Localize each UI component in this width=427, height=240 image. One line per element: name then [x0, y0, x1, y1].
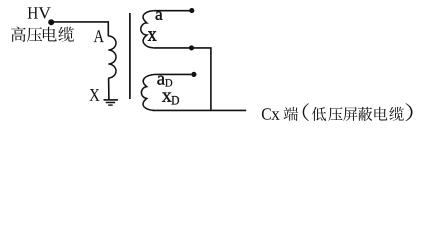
wire: HV dot to primary winding top (corner at A) — [51, 22, 108, 36]
ground symbol at X — [104, 99, 119, 101]
label HV — [28, 7, 38, 18]
wire: terminal x to right corner, down to Cx rail — [154, 48, 211, 111]
wire: terminal a to dot — [153, 10, 189, 12]
node: HV junction dot — [48, 19, 54, 25]
label X (primary bottom terminal) — [89, 89, 99, 101]
label A (primary top terminal) — [94, 30, 104, 42]
circuit schematic: HV test transformer with Cx measurement — [0, 0, 427, 130]
node: terminal x dot — [189, 45, 194, 50]
node: terminal a dot — [189, 8, 194, 13]
inductor: secondary winding a-x (left-bulging) — [141, 11, 154, 48]
wire: terminal aD to dot — [156, 73, 192, 75]
label xD (secondary 2 bottom) — [162, 93, 172, 102]
wire: Cx rail (xD to Cx terminal) — [153, 109, 247, 111]
label aD (secondary 2 top) — [157, 76, 164, 85]
label a (secondary 1 top) — [156, 12, 163, 20]
transformer core line — [129, 13, 131, 99]
label x (secondary 1 bottom) — [148, 31, 157, 40]
inductor: primary winding A-X (3 right-bulging arcs) — [108, 36, 116, 78]
inductor: secondary winding aD-xD (left-bulging) — [141, 74, 155, 110]
wire: primary winding bottom to ground — [108, 78, 110, 100]
label: 端（低压屏蔽电缆） — [284, 103, 413, 121]
label Cx — [262, 108, 271, 119]
node: terminal aD dot — [191, 72, 196, 77]
label: 高压电缆 (HV cable) — [11, 27, 74, 42]
